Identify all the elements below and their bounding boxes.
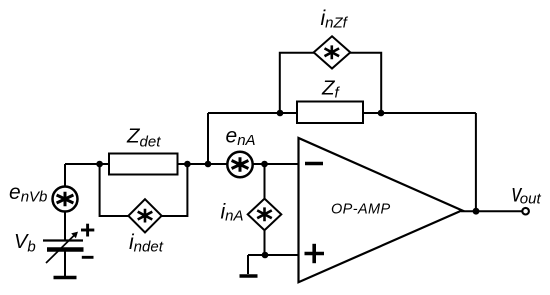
svg-text:inZf: inZf (321, 7, 349, 32)
svg-text:Zdet: Zdet (126, 125, 161, 151)
svg-text:vout: vout (512, 180, 542, 208)
svg-text:Vb: Vb (14, 231, 36, 256)
svg-text:enVb: enVb (9, 181, 47, 206)
svg-text:enA: enA (226, 125, 256, 150)
svg-text:OP-AMP: OP-AMP (331, 202, 391, 218)
svg-text:inA: inA (221, 201, 244, 225)
svg-text:Zf: Zf (321, 77, 341, 102)
svg-text:indet: indet (129, 231, 164, 256)
